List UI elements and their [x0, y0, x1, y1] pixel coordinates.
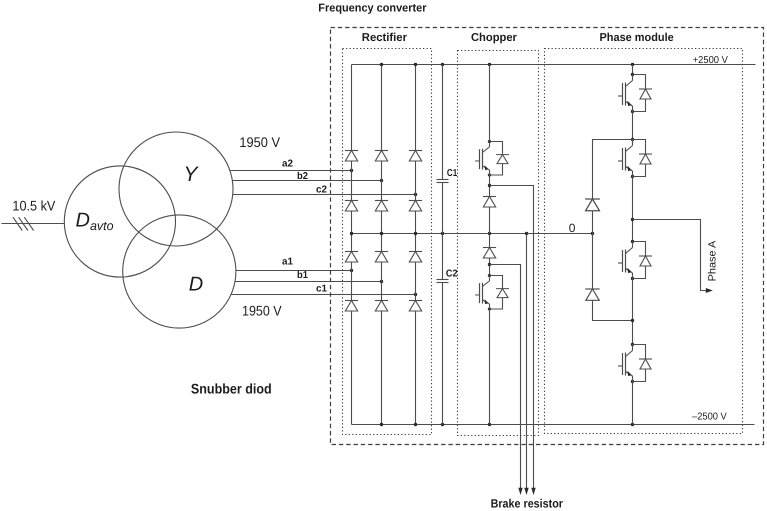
svg-text:D: D — [189, 274, 203, 296]
wire V2 to phase tap — [632, 177, 634, 242]
diode D26 — [409, 301, 422, 312]
wire diode to mid rail — [489, 207, 491, 248]
svg-text:Brake resistor: Brake resistor — [491, 497, 564, 511]
capacitor branch wire lower — [442, 283, 444, 425]
diode D25 — [375, 301, 388, 312]
node mid rail clamp — [591, 232, 594, 235]
node top rail phase — [631, 63, 634, 66]
transistor V2 phase IGBT 2 — [618, 138, 652, 178]
diode D11 — [345, 151, 358, 162]
node c1 — [414, 293, 417, 296]
wire a1 — [236, 270, 351, 272]
transformer winding Y circle — [119, 132, 233, 246]
capacitor branch wire upper — [442, 65, 444, 180]
chopper main wire lower — [489, 309, 491, 425]
wire c1 — [231, 294, 415, 296]
wire clamp bottom — [593, 301, 633, 321]
node phase tap — [631, 218, 634, 221]
wire -2500V bottom rail — [352, 424, 755, 426]
node mid rail cap — [441, 232, 444, 235]
diode D24 — [345, 301, 358, 312]
node bottom rail col2 — [380, 423, 383, 426]
node mid rail brake — [525, 232, 528, 235]
diode D21 — [345, 252, 358, 263]
node mid rail col2 — [380, 232, 383, 235]
phase module dotted box — [545, 49, 743, 434]
wire phase A out — [633, 220, 708, 291]
wire b2 — [232, 180, 381, 182]
diode D14 — [345, 201, 358, 212]
svg-text:Phase module: Phase module — [600, 32, 674, 44]
arrow brake 3 — [531, 488, 535, 495]
transistor V3 phase IGBT 3 — [618, 240, 652, 280]
svg-text:a1: a1 — [282, 256, 293, 267]
node top rail col3 — [414, 63, 417, 66]
node brake tap upper — [488, 184, 491, 187]
wire 0 mid rail — [352, 233, 593, 235]
wire clamp top — [593, 140, 633, 200]
svg-text:1950 V: 1950 V — [239, 134, 280, 150]
wire clamp mid upper — [592, 211, 594, 290]
phase module main wire top — [632, 65, 634, 75]
transistor V1 phase IGBT 1 — [618, 73, 652, 113]
node top rail cap — [441, 63, 444, 66]
transistor V4 phase IGBT 4 — [618, 343, 652, 383]
diode D22 — [375, 252, 388, 263]
wire +2500V top rail — [352, 64, 756, 66]
diode D23 — [409, 252, 422, 263]
rectifier dotted box — [343, 49, 432, 435]
node mid rail col3 — [414, 232, 417, 235]
svg-text:Chopper: Chopper — [471, 32, 517, 44]
svg-text:Snubber diod: Snubber diod — [191, 380, 272, 396]
phase main wire bottom — [632, 382, 634, 425]
svg-text:0: 0 — [569, 221, 576, 235]
wire b1 — [236, 281, 382, 283]
transformer winding D circle — [123, 215, 236, 328]
diode D15 — [375, 201, 388, 212]
diode D41 clamp upper — [585, 199, 600, 211]
rectifier column 3 wire — [415, 65, 417, 425]
node b1 — [380, 280, 383, 283]
wire 10.5 kV input — [2, 223, 65, 225]
node a1 — [350, 269, 353, 272]
frequency converter outer dashed box — [331, 28, 764, 445]
chopper wire Q1 to node — [489, 175, 491, 197]
transformer winding Davto circle — [64, 166, 175, 277]
hatch marks — [13, 217, 34, 230]
node bottom rail phase — [631, 423, 634, 426]
svg-text:Y: Y — [184, 163, 200, 186]
svg-text:a2: a2 — [282, 158, 293, 169]
rectifier column 1 wire — [351, 65, 353, 425]
chopper dotted box — [458, 51, 539, 436]
svg-text:1950 V: 1950 V — [242, 303, 282, 319]
wire c2 — [233, 194, 416, 196]
svg-text:Frequency converter: Frequency converter — [318, 2, 427, 14]
arrow brake 2 — [524, 488, 528, 495]
wire a2 — [230, 170, 352, 172]
node bottom rail chopper — [488, 423, 491, 426]
svg-text:b1: b1 — [297, 270, 308, 281]
node mid rail chopper — [488, 232, 491, 235]
svg-text:10.5 kV: 10.5 kV — [12, 197, 56, 213]
diode D42 clamp lower — [585, 289, 599, 300]
node top rail chopper — [488, 63, 491, 66]
svg-text:Rectifier: Rectifier — [362, 32, 408, 44]
capacitor branch wire middle — [442, 183, 444, 280]
diode D16 — [409, 201, 422, 212]
arrow phase A — [706, 288, 713, 293]
node top rail col2 — [380, 63, 383, 66]
wire V1 to V2 — [632, 112, 634, 140]
wire V3 to clamp node — [632, 279, 634, 345]
node mid rail col1 — [350, 232, 353, 235]
svg-text:+2500 V: +2500 V — [693, 55, 728, 66]
node a2 — [350, 169, 353, 172]
rectifier column 2 wire — [381, 65, 383, 425]
capacitor C2 — [437, 280, 449, 283]
svg-text:b2: b2 — [297, 171, 308, 182]
svg-text:C1: C1 — [447, 168, 458, 179]
node c2 — [414, 193, 417, 196]
node b2 — [380, 179, 383, 182]
wire brake tap upper — [490, 186, 534, 490]
svg-text:–2500 V: –2500 V — [692, 411, 727, 422]
transistor Q2 chopper bottom IGBT — [475, 274, 509, 311]
diode D13 — [409, 151, 422, 162]
wire diode to Q2 — [489, 258, 491, 276]
node clamp bottom junction — [631, 319, 634, 322]
diode D12 — [375, 151, 388, 162]
node brake tap lower — [488, 263, 491, 266]
svg-text:C2: C2 — [446, 269, 458, 280]
wire brake tap lower — [490, 265, 521, 490]
diode D31 chopper upper series — [483, 197, 496, 208]
chopper main wire upper — [489, 65, 491, 142]
transistor Q1 chopper top IGBT — [475, 140, 509, 177]
wire brake mid — [526, 234, 528, 490]
diode D32 chopper lower series — [483, 248, 496, 259]
svg-text:c1: c1 — [316, 283, 327, 294]
node bottom rail cap — [441, 423, 444, 426]
svg-text:c2: c2 — [316, 184, 327, 195]
capacitor C1 — [437, 180, 449, 183]
arrow brake 1 — [518, 488, 522, 495]
svg-text:Phase A: Phase A — [706, 241, 718, 282]
node bottom rail col3 — [414, 423, 417, 426]
